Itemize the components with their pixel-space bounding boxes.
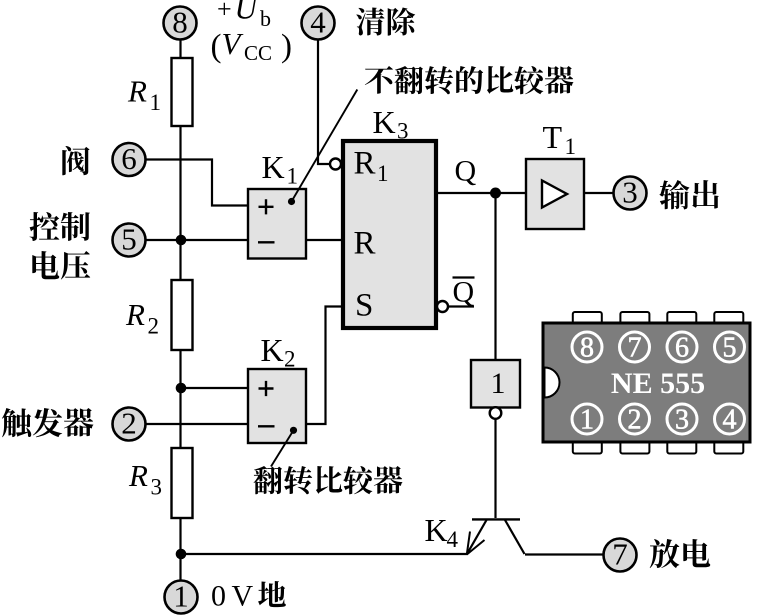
svg-text:4: 4 [310, 5, 326, 40]
label R3 [128, 458, 162, 500]
svg-text:4: 4 [723, 405, 737, 436]
svg-text:8: 8 [580, 333, 594, 364]
K1 plus sign [259, 199, 274, 214]
svg-text:U: U [235, 0, 260, 26]
svg-text:7: 7 [612, 537, 628, 572]
annotation: non-inverting comparator [365, 66, 393, 94]
svg-text:1: 1 [491, 367, 506, 400]
pin 1 terminal (ground) [165, 579, 198, 614]
pin 2 terminal [113, 406, 146, 441]
package pin 8 circle [572, 332, 602, 364]
svg-text:R: R [127, 74, 147, 109]
wire inverter to K4 base [494, 419, 496, 518]
package pin 4 circle [715, 404, 745, 436]
label K3 [373, 104, 409, 144]
package pin 2 circle [620, 404, 650, 436]
svg-text:1: 1 [565, 134, 577, 159]
svg-text:S: S [355, 288, 373, 324]
K2 minus sign [258, 425, 275, 427]
label R2 [125, 297, 159, 339]
label trigger [2, 408, 31, 437]
T1 triangle [542, 181, 567, 208]
pin 3 terminal [614, 175, 647, 210]
svg-text:3: 3 [151, 475, 163, 500]
svg-text:8: 8 [172, 5, 188, 40]
wire R1 to R2 (rail) [179, 126, 181, 280]
svg-text:K: K [425, 512, 448, 548]
svg-text:b: b [260, 6, 271, 31]
svg-text:): ) [281, 29, 292, 65]
svg-text:2: 2 [628, 405, 642, 436]
K3 R1-bar input bubble [330, 159, 341, 170]
wire Q junction to inverter [494, 193, 496, 360]
svg-text:CC: CC [244, 41, 272, 65]
svg-text:6: 6 [675, 333, 689, 364]
label K2 [261, 332, 296, 372]
K2 plus sign [259, 381, 274, 396]
svg-text:2: 2 [148, 314, 160, 339]
wire pin6 to K1 plus [145, 160, 248, 206]
resistor R3 [172, 448, 193, 518]
svg-text:3: 3 [397, 119, 409, 144]
wire R2 to R3 (rail) [179, 350, 181, 448]
junction node ground [176, 549, 187, 560]
pin 8 terminal (Vcc) [164, 5, 197, 40]
pin 6 terminal [113, 141, 146, 176]
package notch [545, 368, 560, 398]
svg-text:3: 3 [675, 405, 689, 436]
label R1 [127, 74, 161, 116]
svg-text:Q: Q [453, 276, 475, 309]
svg-text:V: V [232, 580, 254, 613]
svg-text:5: 5 [121, 222, 137, 257]
package bottom pins [573, 441, 602, 454]
svg-text:Q: Q [455, 155, 477, 188]
package body [543, 323, 750, 442]
inverter output bubble [490, 407, 502, 419]
svg-text:R: R [125, 297, 145, 332]
svg-text:(: ( [211, 29, 222, 65]
junction node R2/R3 [176, 383, 187, 394]
svg-text:K: K [373, 104, 396, 140]
label 0V ground [211, 580, 254, 613]
svg-text:6: 6 [121, 141, 137, 176]
wire pin5 to K1 minus [145, 239, 248, 241]
svg-text:1: 1 [580, 405, 594, 436]
comparator K1 [248, 189, 306, 259]
svg-text:R: R [354, 226, 376, 262]
K1 minus sign [258, 241, 275, 243]
pin 7 terminal [604, 537, 637, 572]
label control voltage [30, 212, 60, 241]
label Q-bar [453, 276, 475, 309]
pin 5 terminal [113, 222, 146, 257]
buffer T1 [526, 159, 584, 229]
svg-text:2: 2 [121, 406, 137, 441]
svg-text:1: 1 [287, 164, 299, 189]
package pin 3 circle [667, 404, 697, 436]
NE555 DIP package [543, 312, 750, 454]
package pin 5 circle [715, 332, 745, 364]
svg-text:7: 7 [628, 333, 642, 364]
K3 Q-bar output bubble [437, 301, 448, 312]
pointer line to K2 [271, 430, 294, 466]
svg-text:4: 4 [447, 527, 459, 552]
label +Ub (Vcc) [211, 0, 293, 65]
junction node pin5/rail [176, 235, 187, 246]
label output [659, 180, 689, 209]
svg-text:1: 1 [377, 161, 389, 186]
package top pins [573, 312, 602, 324]
wire pin4 to R1-bar bubble [318, 39, 329, 164]
wire collector to pin 7 [525, 553, 604, 555]
junction node Q [490, 188, 501, 199]
svg-text:1: 1 [173, 579, 189, 614]
wire junction to K2 plus [181, 387, 248, 389]
label K4 [425, 512, 459, 552]
wire R3 to ground node [179, 518, 181, 582]
svg-text:T: T [543, 119, 563, 155]
label threshold [62, 146, 89, 175]
wire K2 output to S input [306, 307, 342, 425]
svg-text:+: + [217, 0, 232, 24]
wire pin8 to R1 [179, 39, 181, 59]
resistor R1 [172, 58, 193, 126]
svg-text:NE 555: NE 555 [611, 367, 705, 400]
svg-text:2: 2 [284, 347, 296, 372]
flip-flop K3 [343, 141, 436, 328]
wire Q-bar stub [448, 305, 474, 307]
resistor R2 [172, 280, 193, 350]
wire K1 output to R input [306, 239, 342, 241]
svg-text:0: 0 [211, 580, 226, 613]
annotation: inverting comparator [254, 466, 283, 494]
wire K3 Q output [437, 192, 526, 194]
svg-text:5: 5 [723, 333, 737, 364]
comparator K2 [248, 369, 306, 443]
package pin 6 circle [667, 332, 697, 364]
pointer line to K1 [292, 90, 358, 202]
label T1 [543, 119, 577, 159]
package pin 1 circle [572, 404, 602, 436]
svg-text:V: V [222, 26, 244, 61]
svg-text:1: 1 [150, 90, 162, 115]
svg-text:R: R [354, 146, 376, 182]
inverter box 1 [471, 360, 520, 408]
svg-text:K: K [261, 332, 284, 368]
wire pin2 to K2 minus [145, 423, 248, 425]
ground wire (R3 node to emitter) [181, 553, 468, 555]
svg-text:R: R [128, 458, 148, 493]
svg-text:3: 3 [622, 175, 638, 210]
label discharge [650, 539, 680, 568]
package pin 7 circle [620, 332, 650, 364]
label K1 [262, 149, 299, 189]
label clear [356, 8, 384, 36]
transistor K4 [467, 519, 525, 554]
svg-text:K: K [262, 149, 285, 185]
wire T1 to pin3 [584, 192, 614, 194]
K3 pin label R1 [354, 146, 389, 187]
pin 4 terminal [302, 5, 335, 40]
